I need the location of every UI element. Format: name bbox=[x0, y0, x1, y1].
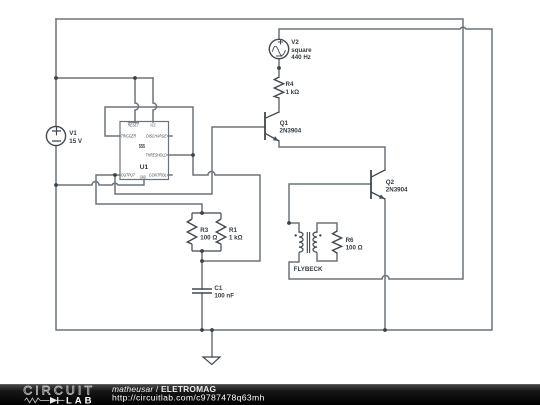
svg-text:VCC: VCC bbox=[150, 123, 156, 128]
svg-text:100 Ω: 100 Ω bbox=[200, 234, 217, 241]
svg-text:R4: R4 bbox=[286, 81, 294, 88]
svg-text:1 kΩ: 1 kΩ bbox=[229, 234, 243, 241]
svg-text:2N3904: 2N3904 bbox=[280, 127, 302, 134]
svg-text:U1: U1 bbox=[140, 164, 149, 171]
svg-text:2N3904: 2N3904 bbox=[386, 186, 408, 193]
svg-text:100 nF: 100 nF bbox=[214, 293, 234, 300]
svg-text:100 Ω: 100 Ω bbox=[346, 244, 363, 251]
svg-text:555: 555 bbox=[139, 144, 145, 150]
svg-text:Q2: Q2 bbox=[386, 179, 395, 186]
svg-text:THRESHOLD: THRESHOLD bbox=[146, 152, 167, 157]
svg-text:DISCHARGE: DISCHARGE bbox=[146, 134, 167, 139]
svg-text:Q1: Q1 bbox=[280, 120, 289, 127]
svg-text:C1: C1 bbox=[214, 285, 222, 292]
svg-text:TRIGGER: TRIGGER bbox=[121, 134, 137, 139]
svg-text:R6: R6 bbox=[346, 237, 354, 244]
svg-text:RESET: RESET bbox=[128, 123, 140, 128]
svg-text:LAB: LAB bbox=[66, 395, 94, 405]
svg-text:FLYBECK: FLYBECK bbox=[294, 266, 323, 273]
svg-text:V2: V2 bbox=[291, 39, 299, 46]
svg-text:CONTROL: CONTROL bbox=[149, 173, 167, 178]
svg-text:OUTPUT: OUTPUT bbox=[121, 173, 136, 178]
svg-text:http://circuitlab.com/c9787478: http://circuitlab.com/c9787478q63mh bbox=[112, 392, 265, 402]
svg-text:440 Hz: 440 Hz bbox=[291, 54, 311, 61]
svg-text:square: square bbox=[291, 47, 312, 54]
svg-text:V1: V1 bbox=[69, 130, 77, 137]
svg-text:15 V: 15 V bbox=[69, 138, 83, 145]
svg-text:1 kΩ: 1 kΩ bbox=[286, 89, 300, 96]
svg-text:R1: R1 bbox=[229, 227, 237, 234]
svg-text:GND: GND bbox=[140, 174, 146, 179]
svg-text:R3: R3 bbox=[200, 227, 208, 234]
